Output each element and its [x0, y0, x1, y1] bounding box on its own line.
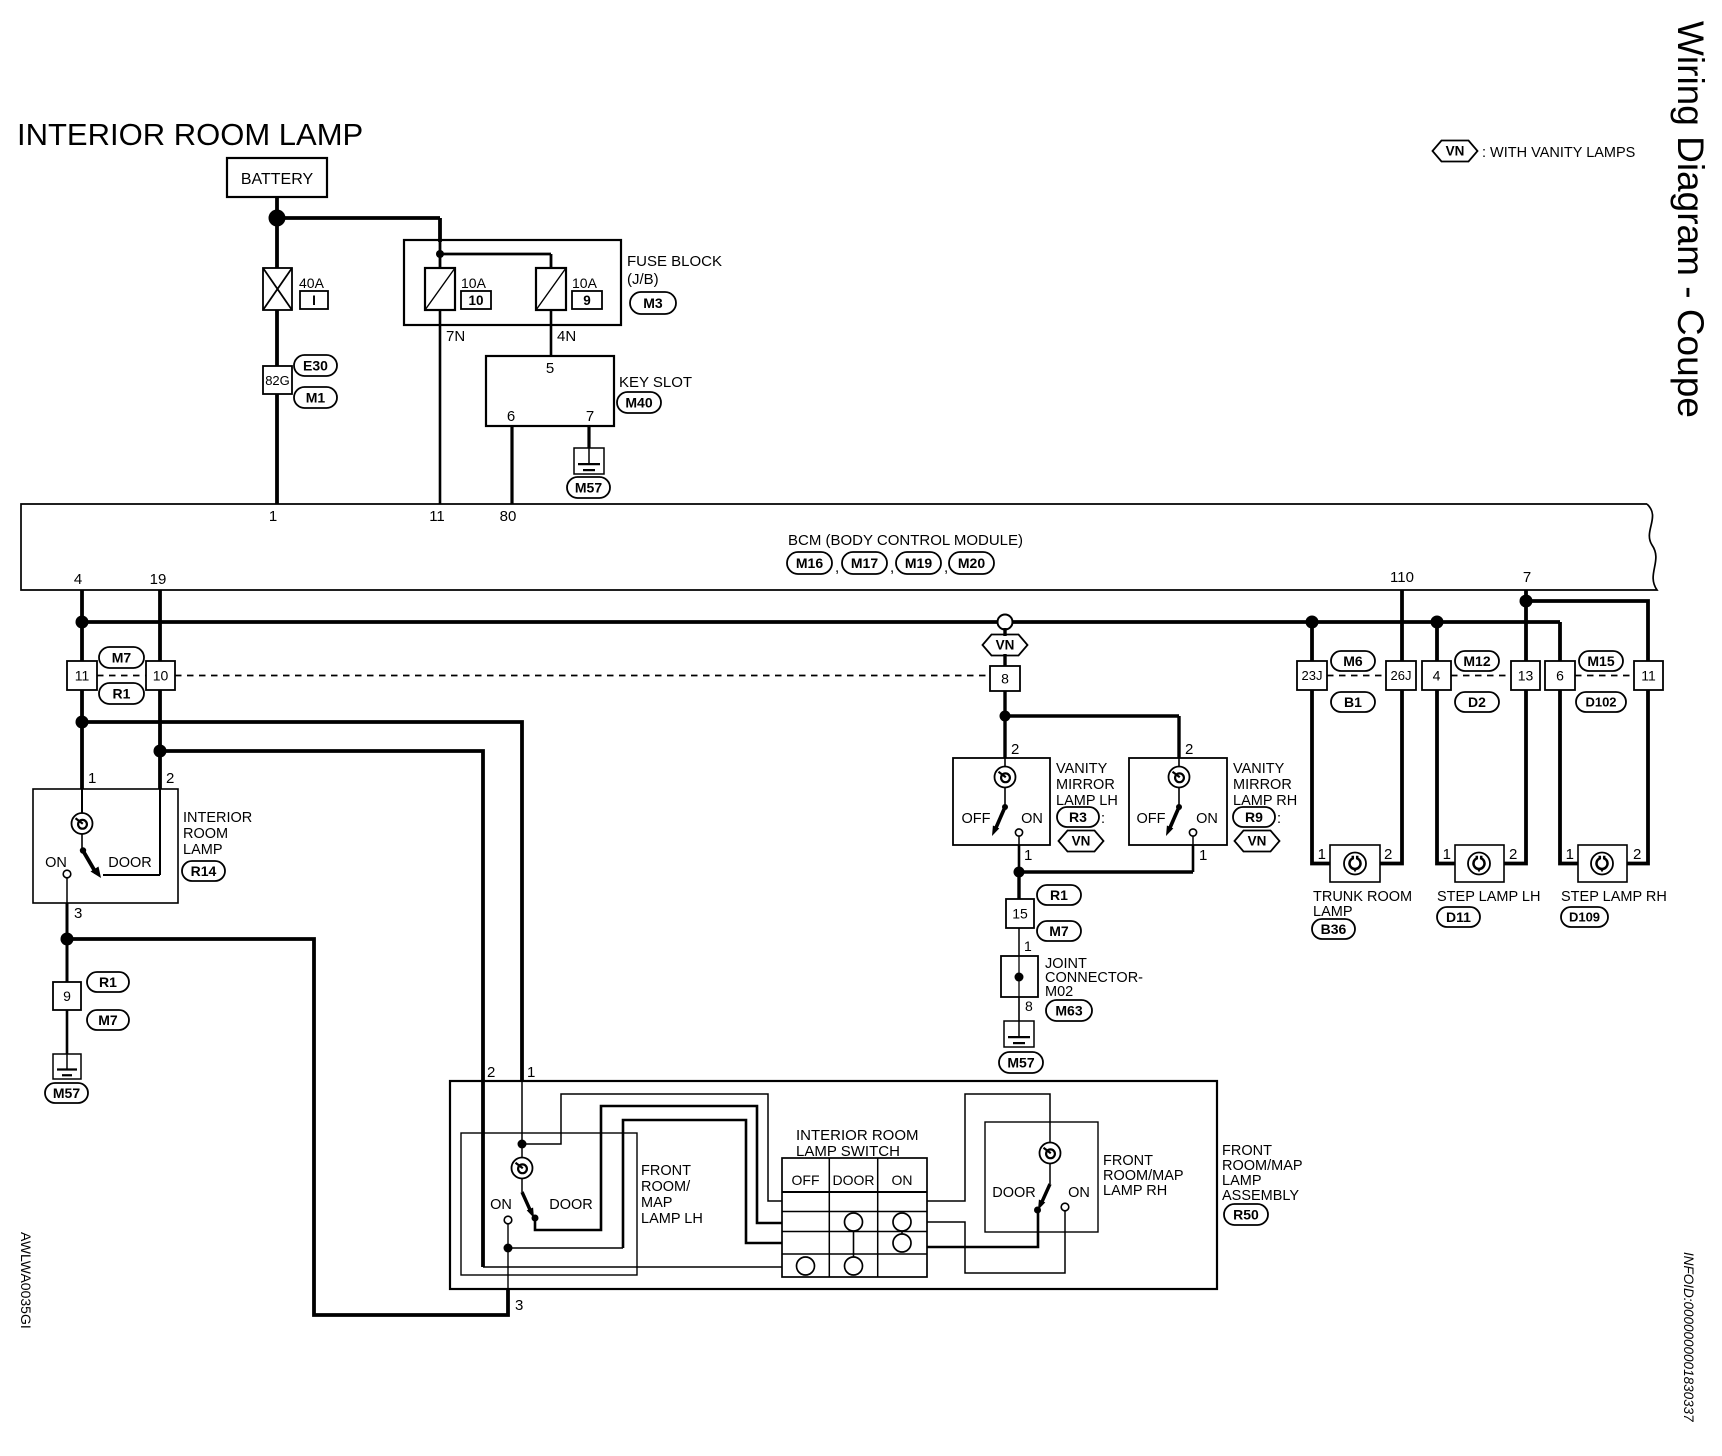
svg-text:4: 4	[74, 571, 82, 588]
key slot M40	[486, 356, 692, 426]
svg-text:M1: M1	[306, 389, 326, 405]
BCM pin 7	[1523, 569, 1531, 586]
svg-text:4: 4	[1433, 667, 1441, 683]
svg-text:LAMP: LAMP	[183, 842, 223, 858]
svg-text:FRONT: FRONT	[641, 1163, 691, 1179]
wire BCM pin 7 to connector 13	[1524, 590, 1528, 661]
svg-text::: :	[1277, 811, 1281, 827]
svg-text:40A: 40A	[299, 275, 325, 291]
junction pin 3 ground net	[61, 933, 74, 946]
BCM pin 1	[269, 508, 277, 525]
front map lamp LH name	[641, 1163, 703, 1227]
svg-text:15: 15	[1012, 905, 1028, 921]
svg-text:(J/B): (J/B)	[627, 271, 659, 288]
svg-text:B36: B36	[1321, 921, 1347, 937]
junction feed to front map lamp pin 1	[76, 716, 89, 729]
svg-text:,: ,	[835, 559, 839, 576]
svg-text:VANITY: VANITY	[1233, 761, 1285, 777]
wire key slot pin 7 to ground	[587, 426, 590, 448]
svg-text:INFOID:0000000001830337: INFOID:0000000001830337	[1681, 1252, 1696, 1422]
vanity mirror lamp LH R3	[953, 741, 1050, 845]
wire to assembly pin 3	[507, 1248, 509, 1289]
svg-text:M7: M7	[1049, 923, 1069, 939]
junction pin4/bus	[76, 616, 89, 629]
front room/map lamp assembly R50	[450, 1064, 1217, 1314]
figure id AWLWA0035GI	[18, 1232, 34, 1329]
svg-text:KEY SLOT: KEY SLOT	[619, 374, 692, 391]
svg-text:FUSE BLOCK: FUSE BLOCK	[627, 253, 722, 270]
svg-text:ROOM: ROOM	[183, 826, 228, 842]
svg-text:8: 8	[1001, 670, 1009, 686]
BCM pin 110	[1390, 569, 1414, 586]
front map lamp RH switch	[992, 1184, 1090, 1214]
ground M57 (interior room lamp)	[45, 1054, 88, 1103]
svg-text:1: 1	[88, 770, 96, 787]
front map lamp LH bulb	[512, 1158, 533, 1193]
svg-text:6: 6	[507, 408, 515, 425]
junction LH on contact / pin 3	[504, 1244, 513, 1253]
svg-text:23J: 23J	[1302, 668, 1323, 683]
wire connector 13 to step lamp LH pin 2	[1490, 690, 1526, 864]
svg-text:R1: R1	[1050, 887, 1068, 903]
wire BCM pin 110 to connector 26J	[1400, 590, 1404, 661]
svg-text:ROOM/MAP: ROOM/MAP	[1222, 1158, 1303, 1174]
svg-text:M02: M02	[1045, 984, 1073, 1000]
VN tag on branch	[983, 635, 1028, 656]
battery	[227, 158, 327, 197]
svg-text:DOOR: DOOR	[992, 1185, 1036, 1201]
svg-text:R9: R9	[1245, 809, 1263, 825]
svg-text:M3: M3	[643, 295, 663, 311]
svg-text:VN: VN	[1072, 834, 1091, 849]
front map lamp LH switch	[490, 1192, 593, 1224]
svg-text:1: 1	[1024, 938, 1032, 954]
BCM pin 80	[500, 508, 517, 525]
svg-text:1: 1	[1024, 847, 1032, 864]
fuse 10 10A	[425, 268, 491, 310]
svg-text:LAMP: LAMP	[1313, 904, 1353, 920]
svg-text:R3: R3	[1069, 809, 1087, 825]
svg-text:INTERIOR ROOM LAMP: INTERIOR ROOM LAMP	[17, 117, 363, 152]
connector 11 (M7/R1)	[67, 661, 97, 690]
wire junction down to connector 9	[66, 939, 69, 982]
front map lamp RH bulb	[1040, 1143, 1061, 1185]
wire vanity RH pin 1	[1193, 836, 1207, 872]
svg-text:BATTERY: BATTERY	[241, 171, 314, 188]
svg-text:OFF: OFF	[1137, 811, 1166, 827]
step lamp LH D11	[1437, 845, 1540, 927]
svg-text:E30: E30	[303, 357, 328, 373]
fuse 9 10A	[536, 268, 602, 310]
svg-text:MAP: MAP	[641, 1195, 672, 1211]
wire connector 10 down to interior room lamp pin 2	[158, 690, 162, 789]
svg-text:M12: M12	[1463, 653, 1490, 669]
wire joint connector pin 8 to ground	[1019, 997, 1033, 1021]
svg-text:AWLWA0035GI: AWLWA0035GI	[18, 1232, 34, 1329]
switch contact OFF position	[797, 1257, 815, 1275]
svg-text:10A: 10A	[461, 275, 487, 291]
svg-text:1: 1	[527, 1064, 535, 1081]
svg-text:4N: 4N	[557, 328, 576, 345]
assembly name R50	[1222, 1143, 1303, 1225]
svg-text:ON: ON	[1196, 811, 1218, 827]
svg-text:2: 2	[487, 1064, 495, 1081]
svg-text:ON: ON	[1068, 1185, 1090, 1201]
connector 10 (M7/R1)	[146, 661, 175, 690]
step lamp RH D109	[1561, 845, 1667, 927]
svg-text:D2: D2	[1468, 694, 1486, 710]
dashed link 6-11	[1575, 675, 1634, 677]
svg-text::: :	[1101, 811, 1105, 827]
svg-text:,: ,	[890, 559, 894, 576]
junction feed to front map lamp pin 2	[154, 745, 167, 758]
junction battery feed	[269, 210, 286, 227]
vanity LH bulb	[995, 758, 1016, 806]
svg-text:19: 19	[150, 571, 167, 588]
wire LH lamp feed to switch row 2	[522, 1094, 782, 1201]
svg-text:2: 2	[1011, 741, 1019, 758]
wire connector 11 to step lamp RH pin 2	[1613, 690, 1648, 864]
wire to front room/map lamp assembly pin 2	[160, 751, 483, 1081]
harness dashed link 11-10	[97, 675, 146, 677]
legend: VN = WITH VANITY LAMPS	[1433, 141, 1636, 162]
svg-text:M7: M7	[112, 649, 132, 665]
wire switch row 4 to RH door contact	[927, 1212, 1038, 1247]
junction pin 7 branch	[1520, 595, 1533, 608]
interior room lamp switch table	[782, 1158, 927, 1277]
switch contacts DOOR position	[845, 1213, 863, 1275]
connector 82G (E30 / M1)	[263, 355, 337, 408]
wire interior room lamp pin 3	[67, 878, 82, 939]
dashed link 23J-26J	[1327, 675, 1386, 677]
svg-text:VN: VN	[996, 638, 1015, 653]
svg-text:11: 11	[75, 667, 90, 683]
wire LH door contact to switch row 3	[535, 1106, 782, 1230]
wire pin 3 to assembly pin 3	[67, 939, 508, 1315]
connector 13 (M12/D2)	[1511, 661, 1540, 690]
BCM body control module M16 M17 M19 M20	[21, 504, 1657, 590]
svg-text:2: 2	[1509, 846, 1517, 863]
wire junction to connector 15	[1017, 872, 1020, 899]
infoid reference	[1681, 1252, 1696, 1422]
connector 4 (M12/D2)	[1422, 661, 1451, 690]
svg-text:7: 7	[586, 408, 594, 425]
svg-text:11: 11	[429, 508, 445, 525]
svg-text:VN: VN	[1248, 834, 1267, 849]
wire to front room/map lamp assembly pin 1	[82, 722, 522, 1081]
trunk room lamp B36	[1312, 845, 1412, 939]
svg-text:STEP LAMP LH: STEP LAMP LH	[1437, 889, 1540, 905]
svg-text:ROOM/MAP: ROOM/MAP	[1103, 1168, 1184, 1184]
svg-text:LAMP RH: LAMP RH	[1103, 1183, 1167, 1199]
ground M57 (vanity lamps)	[999, 1021, 1043, 1073]
svg-text:D11: D11	[1446, 909, 1471, 925]
svg-text:D109: D109	[1569, 910, 1600, 925]
BCM pin 4	[74, 571, 82, 588]
vanity RH name R9	[1233, 761, 1297, 852]
svg-text:6: 6	[1556, 667, 1564, 683]
svg-text:26J: 26J	[1391, 668, 1412, 683]
svg-text:I: I	[312, 293, 316, 308]
svg-text:9: 9	[583, 293, 591, 308]
svg-text:B1: B1	[1344, 694, 1362, 710]
svg-text:1: 1	[1318, 846, 1326, 863]
svg-text:M17: M17	[851, 555, 878, 571]
svg-text:M63: M63	[1055, 1002, 1082, 1018]
wire battery to fusible link and fuse block	[277, 197, 440, 268]
junction bus to step lamp LH	[1431, 616, 1444, 629]
svg-text:M19: M19	[905, 555, 932, 571]
svg-text:Wiring Diagram - Coupe: Wiring Diagram - Coupe	[1670, 21, 1711, 418]
connector labels M7 R1	[99, 647, 144, 704]
svg-text:3: 3	[515, 1297, 523, 1314]
svg-text:1: 1	[1566, 846, 1574, 863]
svg-text:VANITY: VANITY	[1056, 761, 1108, 777]
connector 26J (M6/B1)	[1386, 661, 1416, 690]
wire bus to connector 4	[1435, 622, 1439, 661]
wire connector 8 to vanity lamps	[1005, 691, 1179, 758]
svg-text:9: 9	[63, 988, 71, 1004]
wire 23J to trunk lamp pin 1	[1312, 690, 1344, 864]
svg-text:D102: D102	[1585, 695, 1616, 710]
svg-text:M57: M57	[53, 1085, 80, 1101]
wire connector 4 to step lamp LH pin 1	[1437, 690, 1468, 864]
wire assembly pin 1 to LH bulb	[521, 1081, 523, 1158]
fuse block J/B M3	[404, 240, 722, 325]
svg-text:11: 11	[1641, 667, 1656, 683]
wire assembly pin 2 to switch row 5	[483, 1081, 782, 1267]
vanity RH bulb	[1169, 758, 1190, 806]
vanity mirror lamp RH R9	[1129, 741, 1227, 845]
ground M57 (key slot)	[567, 448, 610, 498]
svg-text:13: 13	[1518, 667, 1534, 683]
connector 9 (R1/M7)	[53, 972, 129, 1030]
wire switch row 3 to RH on contact	[927, 1211, 1065, 1273]
svg-text:M20: M20	[958, 555, 985, 571]
svg-text:ON: ON	[490, 1197, 512, 1213]
BCM pin 11	[429, 508, 445, 525]
svg-text:2: 2	[166, 770, 174, 787]
svg-text:LAMP LH: LAMP LH	[641, 1211, 703, 1227]
front room/map lamp LH inner box	[461, 1133, 637, 1275]
wire connector 15 to joint connector	[1019, 928, 1032, 956]
junction vanity feed	[1000, 711, 1011, 722]
svg-text:STEP LAMP RH: STEP LAMP RH	[1561, 889, 1667, 905]
power bus wire from pin 4 junction to right side	[82, 622, 1560, 661]
svg-text:10: 10	[468, 293, 483, 308]
wire connector 9 to ground	[66, 1010, 69, 1054]
wire 4N fuse 9 to key slot pin 5	[551, 310, 576, 356]
svg-text:R50: R50	[1233, 1206, 1259, 1222]
wire switch row 2 to RH bulb	[927, 1094, 1050, 1201]
svg-text:M57: M57	[575, 479, 602, 495]
connector 6 (M15/D102)	[1545, 661, 1575, 690]
svg-text:OFF: OFF	[792, 1172, 820, 1188]
junction bus to trunk room lamp	[1306, 616, 1319, 629]
svg-text:OFF: OFF	[962, 811, 991, 827]
wire vanity LH pin 1	[1019, 836, 1032, 872]
svg-text:M40: M40	[625, 394, 652, 410]
labels M15 D102	[1576, 651, 1626, 712]
svg-text:ON: ON	[45, 855, 67, 871]
svg-text:10: 10	[153, 667, 169, 683]
labels M12 D2	[1455, 651, 1499, 712]
svg-text:BCM (BODY CONTROL MODULE): BCM (BODY CONTROL MODULE)	[788, 532, 1023, 549]
connector 8 (vanity feed)	[990, 628, 1020, 691]
svg-text:: WITH VANITY LAMPS: : WITH VANITY LAMPS	[1482, 145, 1635, 161]
wire vanity return bus	[1019, 870, 1193, 873]
svg-text:R14: R14	[191, 863, 217, 879]
harness dashed link 10 to 8	[175, 675, 990, 677]
svg-text:FRONT: FRONT	[1103, 1153, 1153, 1169]
svg-text:7: 7	[1523, 569, 1531, 586]
svg-text:M16: M16	[796, 555, 823, 571]
vanity RH switch	[1137, 804, 1218, 836]
svg-text:LAMP: LAMP	[1222, 1173, 1262, 1189]
svg-text:M6: M6	[1343, 653, 1363, 669]
wire BCM pin 19 to connector 10	[158, 590, 162, 661]
svg-text:2: 2	[1185, 741, 1193, 758]
dashed link 4-13	[1451, 675, 1511, 677]
svg-text:INTERIOR ROOM: INTERIOR ROOM	[796, 1127, 919, 1144]
svg-text:R1: R1	[99, 974, 117, 990]
interior room lamp name R14	[182, 810, 252, 881]
svg-text:ASSEMBLY: ASSEMBLY	[1222, 1188, 1299, 1204]
connector 23J (M6/B1)	[1297, 661, 1327, 690]
wire pin 7 branch to connector 11 right	[1526, 601, 1648, 661]
svg-text:M15: M15	[1587, 653, 1614, 669]
svg-text:ON: ON	[1021, 811, 1043, 827]
wire LH on contact to switch row 4	[508, 1120, 782, 1248]
wire BCM pin 4 down to interior room lamp pin 1	[80, 590, 84, 789]
interior room lamp R14	[33, 770, 178, 903]
svg-text:MIRROR: MIRROR	[1233, 777, 1292, 793]
junction pin 1 node	[518, 1140, 527, 1149]
interior room lamp bulb	[72, 789, 93, 849]
svg-text:R1: R1	[113, 685, 131, 701]
svg-text:ROOM/: ROOM/	[641, 1179, 691, 1195]
svg-text:DOOR: DOOR	[549, 1197, 593, 1213]
front room/map lamp RH inner box	[985, 1122, 1098, 1232]
vanity LH name R3	[1056, 761, 1118, 852]
svg-text:7N: 7N	[446, 328, 465, 345]
svg-text:TRUNK ROOM: TRUNK ROOM	[1313, 889, 1412, 905]
svg-text:10A: 10A	[572, 275, 598, 291]
svg-text:2: 2	[1633, 846, 1641, 863]
svg-text:1: 1	[1199, 847, 1207, 864]
vanity LH switch	[962, 804, 1043, 836]
svg-text:110: 110	[1390, 569, 1414, 586]
connector 15 (R1/M7)	[1006, 885, 1081, 941]
wire fusible link to connector 82G	[275, 310, 279, 366]
svg-text:82G: 82G	[265, 373, 290, 388]
wire 7N fuse 10 to BCM pin 11	[440, 310, 465, 504]
svg-text:DOOR: DOOR	[108, 855, 152, 871]
interior room lamp switch title	[796, 1127, 919, 1160]
svg-text:INTERIOR: INTERIOR	[183, 810, 252, 826]
junction vanity return	[1014, 867, 1025, 878]
svg-text:2: 2	[1384, 846, 1392, 863]
svg-text:M57: M57	[1007, 1054, 1034, 1070]
BCM pin 19	[150, 571, 167, 588]
svg-text:1: 1	[1443, 846, 1451, 863]
svg-text:ON: ON	[892, 1172, 913, 1188]
title: INTERIOR ROOM LAMP	[17, 117, 363, 152]
wire 82G to BCM pin 1	[275, 394, 279, 504]
svg-text:80: 80	[500, 508, 517, 525]
svg-text:MIRROR: MIRROR	[1056, 777, 1115, 793]
wire bus to connector 23J	[1310, 622, 1314, 661]
svg-text:3: 3	[74, 905, 82, 922]
svg-text:5: 5	[546, 360, 554, 377]
labels M6 B1	[1331, 651, 1375, 712]
svg-text:DOOR: DOOR	[833, 1172, 875, 1188]
svg-text:M7: M7	[98, 1012, 118, 1028]
wire connector 6 to step lamp RH pin 1	[1560, 690, 1591, 864]
wire 26J to trunk lamp pin 2	[1366, 690, 1402, 864]
svg-text:8: 8	[1025, 998, 1033, 1014]
front map lamp RH name	[1103, 1153, 1184, 1199]
svg-text:,: ,	[944, 559, 948, 576]
svg-text:1: 1	[269, 508, 277, 525]
fusible link I 40A	[263, 268, 328, 310]
svg-text:VN: VN	[1446, 144, 1465, 159]
wire key slot pin 6 to BCM pin 80	[510, 426, 513, 504]
switch contacts ON position	[893, 1213, 911, 1252]
connector 11 right (M15/D102)	[1634, 661, 1663, 690]
node VN branch on bus	[998, 615, 1013, 630]
svg-text:FRONT: FRONT	[1222, 1143, 1272, 1159]
page side title: Wiring Diagram - Coupe	[1670, 21, 1711, 418]
interior room lamp switch	[45, 789, 160, 878]
joint connector M02 (M63)	[1001, 956, 1143, 1021]
